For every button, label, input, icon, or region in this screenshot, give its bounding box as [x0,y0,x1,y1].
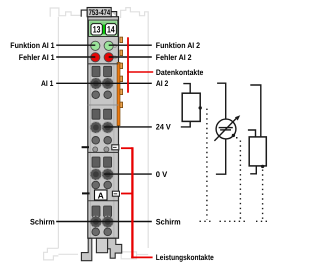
black label line funktion (left) [56,44,95,46]
sensor inner line 2 [220,129,231,131]
data contact tab 1 [120,37,123,43]
shield clamp terminal left [90,216,101,227]
24V clamp terminal right [102,122,113,133]
wire 24V hook [248,130,256,137]
svg-text:AI 2: AI 2 [156,79,169,88]
jumper contact hole right [104,147,109,152]
small ring detail upper [113,44,116,47]
black label line AI row [56,82,152,84]
svg-text:753-474: 753-474 [89,8,111,17]
background left neighbor foot outline [44,248,59,260]
shield wire entry left [92,206,100,217]
AI 2 wire entry [104,66,112,76]
svg-text:0 V: 0 V [156,170,168,179]
black label line 24V [104,126,152,128]
AI 1 wire entry [92,66,100,76]
svg-text:Fehler AI 1: Fehler AI 1 [19,53,55,62]
inner panel line left [90,65,92,238]
svg-text:24 V: 24 V [156,123,172,132]
clamp release 0V right [104,181,112,189]
svg-text:Schirm: Schirm [156,217,181,226]
arrow head [235,115,240,120]
0V clamp terminal left [90,169,101,180]
0V wire entry right [104,157,112,167]
wire sensor to 0V hook [216,139,226,174]
LED function AI1 (green) [91,41,100,50]
black label line fehler (left) [56,56,95,58]
left dash marker 2 [82,192,90,194]
divider section3 [88,200,119,202]
node dot sensor [232,134,235,137]
transmitter body rect [182,93,200,121]
data contact tab 3 [120,63,123,69]
clamp release 24V right [104,137,112,145]
svg-text:Funktion AI 1: Funktion AI 1 [10,41,55,50]
module bottom right steps foot [108,238,122,258]
black label line fehler (right) [109,56,152,58]
svg-text:AI 1: AI 1 [41,79,54,88]
wire to 0V hook [250,166,256,174]
divider section2 [88,151,119,153]
clamp group B [90,109,113,152]
shield dotted bus at schirm row [200,220,214,222]
clamp release AI 2 [104,91,112,99]
left step latch [81,10,87,17]
data contact tab 2 [120,50,123,56]
svg-text:Funktion AI 2: Funktion AI 2 [156,41,201,50]
small ring detail lower [113,56,116,59]
circuit branch 2: adjustable current source sensor [214,83,237,174]
divider under LED section [88,63,119,65]
LED error AI1 (red) [91,53,100,62]
transmitter 3 body rect [249,137,266,166]
24V wire entry left [92,109,100,119]
svg-text:Fehler AI 2: Fehler AI 2 [156,53,192,62]
module bottom center foot [96,238,107,252]
jumper contact hole left [93,147,98,152]
data contact tab 5 [120,89,123,95]
wire hook AI2 row to transducer 1 [183,84,190,94]
background left neighbor edge line [57,17,59,249]
clamp release AI 1 [92,91,100,99]
LED error AI2 (red) [104,53,113,62]
data contact tab 6 [120,102,123,108]
red bracket stub power contact 1 [121,147,132,149]
shield clamp terminal right [102,216,113,227]
label box 14 [105,24,116,35]
clamp release 24V left [92,137,100,145]
module body [88,17,119,239]
clamp release shield left [92,228,100,236]
latch marker 2 [112,191,119,196]
clamp release shield right [104,228,112,236]
clamp group D [90,206,113,236]
module bottom left leg and boot [81,238,91,260]
LED function AI2 (green) [104,41,113,50]
svg-text:Schirm: Schirm [30,217,55,226]
AI 2 clamp terminal [102,78,113,89]
wire transducer 1 to 24V hook [181,121,190,127]
divider mid [88,104,119,106]
circuit branch 1: 2-wire transmitter [181,84,200,127]
svg-text:Leistungskontakte: Leistungskontakte [156,253,214,262]
background rail line bottom left [58,253,78,255]
clamp group A [90,66,113,98]
shield dotted wire 3 [262,170,264,220]
red bracket stub power contact 2 [121,193,132,195]
green label field [89,20,118,36]
node dot transmitter 1 [199,106,202,109]
svg-text:14: 14 [107,25,115,35]
shield dotted wire 1 [206,109,208,220]
orange data-contact strip [117,62,120,125]
data contact tab 4 [120,76,123,82]
svg-text:13: 13 [93,25,101,35]
background left neighbor top tab outline [50,8,59,17]
inner panel line right [113,65,115,238]
A marking box [95,190,108,200]
shield wire entry right [104,206,112,217]
adjustment arrow shaft [214,117,237,140]
black label line funktion (right) [109,44,152,46]
svg-text:Datenkontakte: Datenkontakte [156,68,204,77]
red leader line to Leistungskontakte label [131,256,152,258]
background rail line bottom right [137,254,149,256]
right step latch [111,12,117,17]
black label line schirm [56,221,152,223]
latch marker 1 [112,145,119,150]
0V clamp terminal right [102,169,113,180]
wire hook to sensor top [217,83,226,119]
background right neighbor outline with edge line [121,8,149,248]
shield dotted wire 2 [236,137,238,139]
0V wire entry left [92,157,100,167]
clamp release 0V left [92,181,100,189]
wire hook AI2 row long vertical [250,85,260,137]
svg-text:A: A [98,190,104,200]
background rail step line left [59,12,81,16]
black label line 0V [104,173,152,175]
node dot transmitter 3 [261,165,264,168]
sensor circle [216,119,236,139]
circuit branch 3: 4-wire transmitter [248,85,266,174]
red bracket line power contacts vertical [131,147,133,258]
left dash marker 1 [82,146,89,148]
AI 1 clamp terminal [90,78,101,89]
clamp group C [90,157,113,189]
red bracket line data contacts vertical [127,37,129,92]
sensor inner line 1 [219,127,233,129]
24V wire entry right [104,109,112,119]
background right neighbor foot outline [121,252,136,259]
label box 13 [91,24,102,35]
24V clamp terminal left [90,122,101,133]
top tab 753-474 [87,8,111,17]
red leader line to Datenkontakte label [127,71,153,73]
